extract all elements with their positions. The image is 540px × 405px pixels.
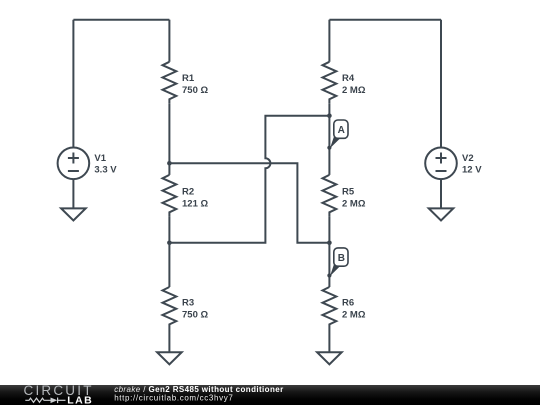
node junction R1/R2 (167, 161, 172, 166)
voltage source V2 (425, 148, 457, 180)
svg-text:R4: R4 (342, 73, 355, 84)
svg-text:2 MΩ: 2 MΩ (342, 85, 366, 96)
node A flag anchor dot (327, 146, 331, 150)
svg-text:750 Ω: 750 Ω (182, 310, 208, 321)
wire R4 to node A (328, 104, 330, 116)
wire left column upper (168, 20, 170, 62)
node A flag pointer (330, 136, 340, 149)
wire V1 top vertical (72, 20, 74, 148)
wire node A to R5 (328, 116, 330, 175)
ground under R3 (157, 352, 182, 364)
logo resistor-diode doodle (25, 398, 65, 404)
wire right column upper (328, 20, 330, 62)
node A junction (327, 113, 332, 118)
ground under R6 (317, 352, 342, 364)
resistor R2 (163, 175, 177, 217)
wire top-left horizontal (73, 19, 169, 21)
wire node B to R6 (328, 243, 330, 287)
svg-text:2 MΩ: 2 MΩ (342, 310, 366, 321)
svg-text:R5: R5 (342, 186, 355, 197)
svg-text:750 Ω: 750 Ω (182, 85, 208, 96)
svg-text:3.3 V: 3.3 V (94, 165, 117, 176)
svg-text:V2: V2 (462, 153, 474, 164)
wire node(R1/R2) to node B : horizontal + down + right (169, 163, 329, 243)
wire R1 to node (168, 104, 170, 164)
svg-text:2 MΩ: 2 MΩ (342, 198, 366, 209)
resistor R1 (163, 62, 177, 104)
wire V1 bottom (72, 179, 74, 208)
wire V2 bottom (440, 179, 442, 208)
svg-text:R6: R6 (342, 298, 354, 309)
node B flag pointer (330, 263, 340, 276)
wire R5 to node B (328, 217, 330, 243)
node B flag (334, 248, 348, 266)
svg-text:V1: V1 (94, 153, 106, 164)
svg-text:12 V: 12 V (462, 165, 482, 176)
resistor R4 (323, 62, 337, 104)
svg-text:121 Ω: 121 Ω (182, 198, 208, 209)
svg-text:R1: R1 (182, 73, 195, 84)
wire R6 to ground (328, 329, 330, 352)
svg-text:B: B (338, 253, 345, 264)
svg-text:A: A (338, 125, 345, 136)
svg-text:R2: R2 (182, 186, 194, 197)
ground under V2 (429, 208, 454, 220)
resistor R5 (323, 175, 337, 217)
wire node(R2/R3) to node A with hop over (169, 116, 329, 243)
ground under V1 (61, 208, 86, 220)
wire node to R2 (168, 163, 170, 175)
resistor R3 (163, 287, 177, 329)
wire R3 to ground (168, 329, 170, 352)
voltage source V1 (58, 148, 90, 180)
node A flag (334, 120, 348, 138)
node B junction (327, 241, 332, 246)
svg-text:LAB: LAB (67, 395, 93, 405)
svg-text:http://circuitlab.com/cc3hvy7: http://circuitlab.com/cc3hvy7 (114, 394, 233, 403)
svg-text:R3: R3 (182, 298, 194, 309)
wire V2 top vertical (440, 20, 442, 148)
footer bar (0, 385, 540, 405)
node B flag anchor dot (327, 273, 331, 277)
wire R2 to node (168, 217, 170, 243)
wire top-right horizontal (329, 19, 441, 21)
node junction R2/R3 (167, 241, 172, 246)
wire node to R3 (168, 243, 170, 287)
resistor R6 (323, 287, 337, 329)
